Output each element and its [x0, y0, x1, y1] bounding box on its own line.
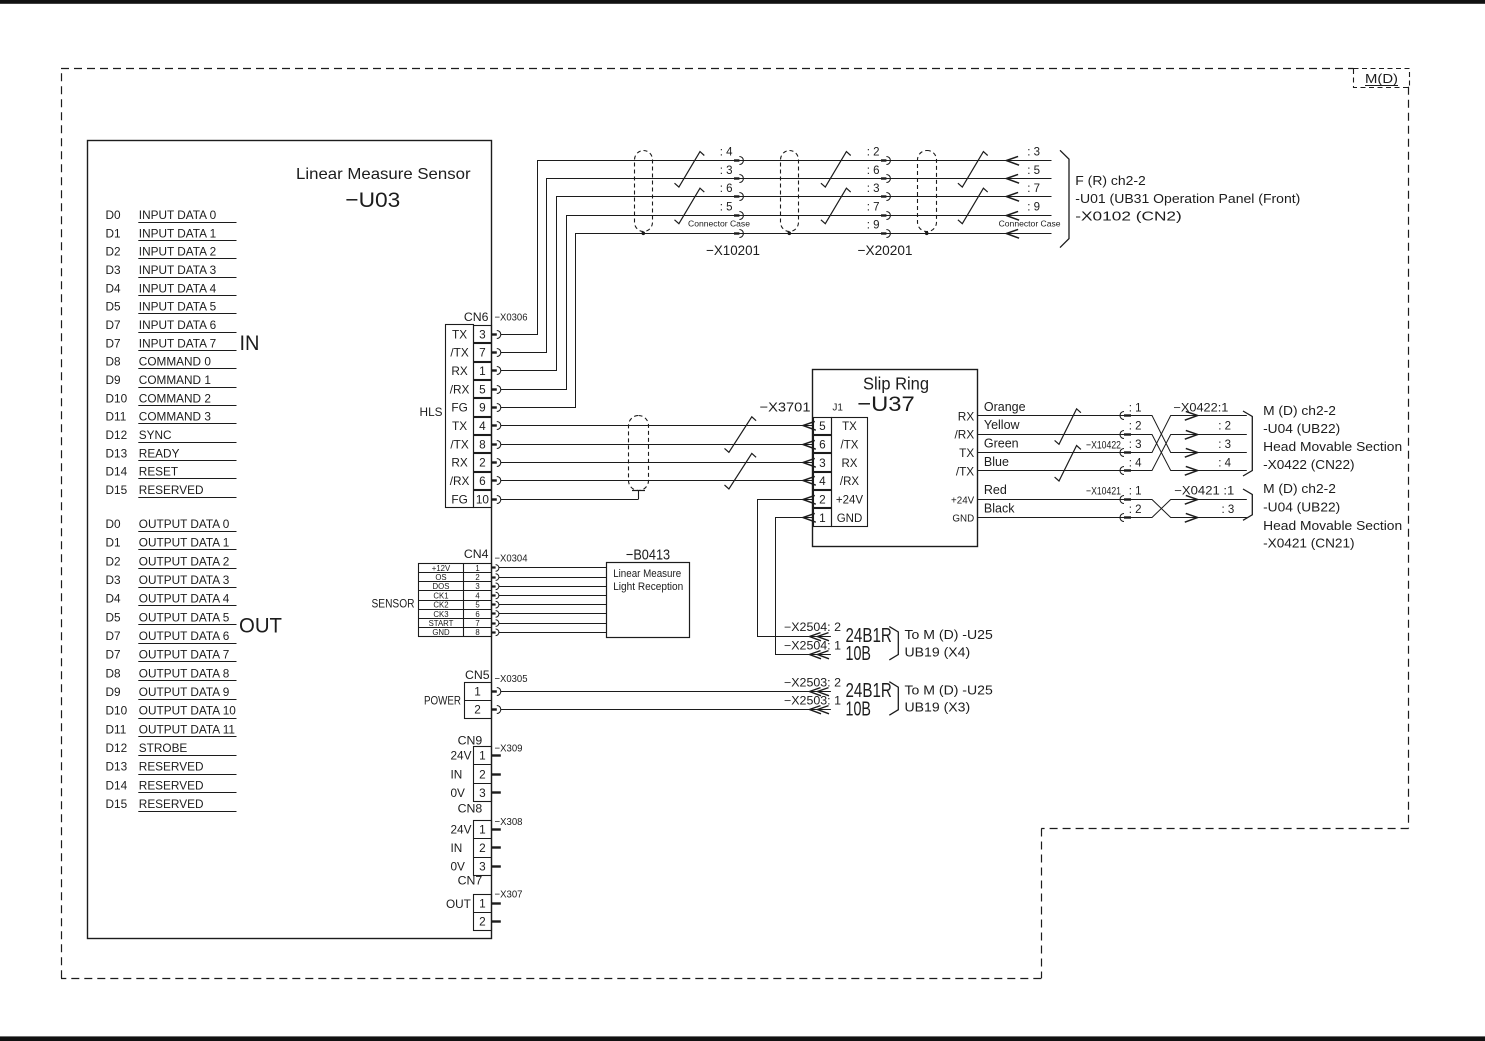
- wire slip ring Yellow: [977, 418, 1124, 434]
- svg-text:D3: D3: [106, 573, 122, 587]
- destination label To M (D) -U25 UB19 (X4): [905, 628, 993, 659]
- svg-text:UB19 (X4): UB19 (X4): [905, 645, 971, 659]
- svg-text:−X10201: −X10201: [706, 242, 760, 258]
- svg-text:D7: D7: [106, 336, 121, 350]
- svg-text:−X309: −X309: [495, 742, 523, 754]
- cable tag -X0304: [495, 553, 528, 565]
- cable label 24B1R 10B X2504: [846, 625, 892, 665]
- svg-text:−X2503: 2: −X2503: 2: [784, 677, 841, 689]
- svg-text:COMMAND 1: COMMAND 1: [139, 373, 211, 387]
- svg-text:SENSOR: SENSOR: [372, 599, 415, 611]
- pin labels at X10201: [720, 147, 733, 214]
- svg-text:5: 5: [819, 419, 826, 433]
- svg-text:OUTPUT DATA 11: OUTPUT DATA 11: [139, 722, 235, 736]
- wire CN6 pin 3 to operation panel :4 row: [501, 161, 1052, 335]
- svg-text:/TX: /TX: [841, 439, 859, 451]
- svg-text:INPUT DATA 0: INPUT DATA 0: [139, 208, 217, 222]
- svg-text:D15: D15: [106, 483, 128, 497]
- svg-text:OUTPUT DATA 2: OUTPUT DATA 2: [139, 554, 229, 568]
- svg-text:D15: D15: [106, 797, 128, 811]
- svg-text:INPUT DATA 3: INPUT DATA 3: [139, 263, 217, 277]
- svg-text:: 4: : 4: [720, 147, 733, 159]
- svg-text:F (R) ch2-2: F (R) ch2-2: [1075, 174, 1146, 188]
- svg-text:RX: RX: [958, 409, 975, 423]
- cable label 24B1R 10B X2503: [846, 680, 892, 720]
- svg-text:-X0421 (CN21): -X0421 (CN21): [1263, 537, 1355, 551]
- destination label To M (D) -U25 UB19 (X3): [905, 683, 993, 714]
- brace to U25 X4: [889, 627, 898, 661]
- block U37 Slip Ring outline: [813, 370, 978, 547]
- svg-text:1: 1: [475, 564, 479, 573]
- svg-text:: 6: : 6: [720, 183, 733, 195]
- svg-text:/TX: /TX: [450, 437, 468, 451]
- svg-text:+24V: +24V: [836, 494, 864, 506]
- svg-text:24V: 24V: [451, 822, 472, 836]
- wire CN5 pin 1 to X2503:2: [501, 691, 831, 693]
- connector X20201 contacts: [881, 157, 890, 238]
- svg-text:: 4: : 4: [1129, 457, 1142, 469]
- svg-text:CN6: CN6: [464, 310, 489, 324]
- svg-text:D10: D10: [106, 391, 128, 405]
- brace to X0422: [1243, 411, 1252, 476]
- svg-text:2: 2: [479, 767, 486, 781]
- svg-text:Black: Black: [984, 502, 1015, 516]
- svg-text:D4: D4: [106, 592, 122, 606]
- top border bar: [0, 0, 1485, 4]
- svg-text:−X0304: −X0304: [495, 553, 528, 565]
- svg-text:COMMAND 3: COMMAND 3: [139, 410, 212, 424]
- svg-text:J1: J1: [832, 403, 843, 414]
- svg-text:+12V: +12V: [432, 564, 451, 573]
- svg-text:0V: 0V: [451, 786, 466, 800]
- connector CN4 of U03: [372, 547, 499, 637]
- wire CN6 pin 2 to slip ring RX: [501, 462, 814, 464]
- wire CN4 pin 4 to B0413: [499, 595, 607, 597]
- svg-text:-X0102 (CN2): -X0102 (CN2): [1075, 209, 1182, 223]
- signal arrows into operation panel: [1006, 156, 1019, 238]
- svg-text:−X0305: −X0305: [495, 673, 528, 685]
- twisted pair mark Orange-Yellow: [1055, 409, 1081, 445]
- label Connector Case right: [999, 218, 1061, 228]
- svg-text:Slip Ring: Slip Ring: [863, 374, 929, 394]
- svg-text:2: 2: [479, 915, 486, 929]
- pin labels at operation panel: [1027, 147, 1040, 214]
- block U03 Linear Measure Sensor outline: [88, 141, 492, 939]
- svg-text:CK3: CK3: [433, 610, 448, 619]
- svg-text:D7: D7: [106, 318, 121, 332]
- svg-text:OUTPUT DATA 0: OUTPUT DATA 0: [139, 517, 230, 531]
- svg-text:D3: D3: [106, 263, 122, 277]
- connector CN6 of U03: [420, 310, 501, 508]
- signal arrows into X0422: [1185, 411, 1198, 475]
- svg-text:: 9: : 9: [1027, 201, 1040, 213]
- wire U37 pin 1 GND to X2504:1: [776, 518, 831, 655]
- signal arrows from UB19 X4: [810, 633, 830, 659]
- cable tag -X308: [495, 816, 523, 828]
- svg-text:3: 3: [819, 456, 826, 470]
- U37 right side pin names: [951, 409, 975, 524]
- svg-text:−U37: −U37: [857, 392, 915, 416]
- svg-text:GND: GND: [837, 513, 863, 525]
- svg-text:-U04 (UB22): -U04 (UB22): [1263, 501, 1340, 515]
- svg-text:4: 4: [475, 591, 480, 600]
- svg-text:OUTPUT DATA 1: OUTPUT DATA 1: [139, 536, 229, 550]
- twisted pair mark rows 7-9: [958, 188, 988, 224]
- svg-text:/RX: /RX: [450, 474, 470, 488]
- svg-text:RX: RX: [451, 364, 468, 378]
- svg-text:3: 3: [479, 860, 486, 874]
- svg-text:INPUT DATA 6: INPUT DATA 6: [139, 318, 217, 332]
- wire CN4 pin 7 to B0413: [499, 623, 607, 625]
- svg-text:6: 6: [475, 610, 479, 619]
- svg-text:OUTPUT DATA 8: OUTPUT DATA 8: [139, 666, 230, 680]
- svg-text:D4: D4: [106, 281, 122, 295]
- svg-text:CK2: CK2: [433, 601, 448, 610]
- svg-text:INPUT DATA 1: INPUT DATA 1: [139, 226, 216, 240]
- bottom border bar: [0, 1036, 1485, 1041]
- svg-text:Green: Green: [984, 437, 1019, 451]
- svg-text:FG: FG: [451, 401, 467, 415]
- svg-text:D9: D9: [106, 685, 121, 699]
- svg-text:2: 2: [474, 703, 481, 717]
- svg-text:8: 8: [479, 437, 486, 451]
- brace to U25 X3: [889, 682, 898, 716]
- wire slip ring Green: [977, 437, 1124, 453]
- svg-text:HLS: HLS: [420, 405, 443, 419]
- svg-text:D5: D5: [106, 300, 122, 314]
- svg-text:−X2504: 1: −X2504: 1: [784, 640, 841, 652]
- svg-text:3: 3: [475, 582, 479, 591]
- svg-text:: 3: : 3: [1222, 504, 1235, 516]
- svg-text:POWER: POWER: [424, 696, 461, 708]
- svg-text:24V: 24V: [451, 749, 472, 763]
- svg-text:TX: TX: [452, 327, 467, 341]
- svg-text:M (D) ch2-2: M (D) ch2-2: [1263, 482, 1336, 496]
- svg-text:7: 7: [479, 346, 486, 360]
- svg-text:1: 1: [819, 511, 826, 525]
- label Linear Measure Sensor: [296, 166, 471, 183]
- svg-text:D14: D14: [106, 465, 128, 479]
- svg-text:D7: D7: [106, 629, 121, 643]
- svg-text:D8: D8: [106, 355, 122, 369]
- svg-text:D12: D12: [106, 741, 128, 755]
- svg-text:TX: TX: [959, 446, 974, 460]
- svg-text:2: 2: [819, 492, 826, 506]
- svg-text:3: 3: [479, 327, 486, 341]
- block B0413 Linear Measure Light Reception: [607, 563, 690, 638]
- wire CN6 pin 7 to operation panel :3 row: [501, 179, 1052, 353]
- wire CN4 pin 5 to B0413: [499, 604, 607, 606]
- pin labels at X20201: [867, 147, 880, 232]
- svg-text:: 9: : 9: [867, 220, 880, 232]
- svg-text:D2: D2: [106, 245, 121, 259]
- svg-text:Connector Case: Connector Case: [688, 218, 750, 228]
- wire CN4 pin 2 to B0413: [499, 577, 607, 579]
- svg-text:D11: D11: [106, 410, 127, 424]
- svg-text:/RX: /RX: [955, 428, 975, 442]
- svg-text:-X0422 (CN22): -X0422 (CN22): [1263, 458, 1355, 472]
- svg-text:1: 1: [474, 685, 481, 699]
- svg-text:Yellow: Yellow: [984, 418, 1021, 432]
- svg-text:−X10421: −X10421: [1086, 485, 1121, 497]
- designator -X20201: [858, 242, 913, 258]
- svg-text:10B: 10B: [846, 643, 871, 665]
- destination label M (D) ch2-2 head movable section CN22: [1263, 404, 1402, 472]
- svg-text:TX: TX: [842, 421, 857, 433]
- svg-text:UB19 (X3): UB19 (X3): [905, 701, 971, 715]
- svg-text:IN: IN: [240, 332, 260, 355]
- wire X10422 pin 3 crossing to X0422 row 1: [1131, 416, 1247, 453]
- wire X10422 pin 2 crossing to X0422 row 4: [1131, 435, 1247, 471]
- designator -U37: [857, 392, 915, 416]
- svg-text:COMMAND 2: COMMAND 2: [139, 391, 211, 405]
- svg-text:: 2: : 2: [1129, 421, 1142, 433]
- wire slip ring Orange: [977, 400, 1124, 416]
- svg-text:−X10422: −X10422: [1086, 439, 1121, 451]
- svg-text:D1: D1: [106, 536, 121, 550]
- svg-text:To M (D) -U25: To M (D) -U25: [905, 683, 993, 697]
- svg-text:3: 3: [479, 786, 486, 800]
- svg-text:FG: FG: [451, 492, 467, 506]
- label Connector Case left: [688, 218, 750, 228]
- svg-text:CK1: CK1: [433, 591, 448, 600]
- svg-text:D12: D12: [106, 428, 128, 442]
- wire CN5 pin 2 to X2503:1: [501, 709, 831, 711]
- svg-text:RX: RX: [451, 456, 468, 470]
- shield symbol on cable X10201 segment: [635, 151, 653, 236]
- pin labels X2503: [784, 677, 841, 707]
- svg-text:: 2: : 2: [1129, 504, 1142, 516]
- connector X10421 contacts: [1120, 496, 1131, 522]
- svg-text:−X0306: −X0306: [495, 312, 528, 324]
- label IN: [240, 332, 260, 355]
- svg-text:READY: READY: [139, 446, 180, 460]
- svg-text:OS: OS: [435, 573, 446, 582]
- connector CN9 of U03: [451, 733, 501, 801]
- svg-text:1: 1: [479, 749, 486, 763]
- svg-text:+24V: +24V: [951, 495, 975, 506]
- svg-text:4: 4: [819, 474, 826, 488]
- designator -B0413: [626, 546, 670, 563]
- svg-text:: 3: : 3: [867, 183, 880, 195]
- svg-text:RX: RX: [842, 458, 858, 470]
- twisted pair mark rows 6-5: [675, 188, 705, 224]
- svg-text:−X307: −X307: [495, 888, 523, 900]
- svg-text:COMMAND 0: COMMAND 0: [139, 355, 212, 369]
- svg-text:0V: 0V: [451, 860, 466, 874]
- svg-text:: 5: : 5: [720, 201, 733, 213]
- svg-text:10: 10: [476, 492, 490, 506]
- wire X10421 pin 2 crossing to X0421 row 1: [1131, 500, 1247, 518]
- svg-text:9: 9: [479, 401, 486, 415]
- twisted pair mark rows 2-6: [821, 152, 851, 188]
- twisted pair mark RX pair X3701: [725, 453, 757, 489]
- wire CN4 pin 8 to B0413: [499, 632, 607, 634]
- label Slip Ring: [863, 374, 929, 394]
- cable tag -X307: [495, 888, 523, 900]
- svg-text:−X20201: −X20201: [858, 242, 913, 258]
- twisted pair mark Green-Blue: [1055, 446, 1081, 482]
- wire X10422 pin 1 crossing to X0422 row 3: [1131, 416, 1247, 453]
- svg-text:/TX: /TX: [956, 464, 974, 478]
- svg-text:INPUT DATA 4: INPUT DATA 4: [139, 281, 217, 295]
- svg-text:: 2: : 2: [1218, 421, 1231, 433]
- input signal list D0-D15: [106, 208, 237, 498]
- svg-text:−X0422:1: −X0422:1: [1173, 402, 1228, 414]
- svg-text:: 3: : 3: [1027, 147, 1040, 159]
- svg-text:D13: D13: [106, 760, 128, 774]
- svg-text:D13: D13: [106, 446, 128, 460]
- svg-text:RESERVED: RESERVED: [139, 760, 204, 774]
- pin labels X2504: [784, 622, 841, 652]
- svg-text:Linear Measure Sensor: Linear Measure Sensor: [296, 166, 471, 183]
- pin labels at X10422: [1129, 402, 1142, 469]
- wire CN4 pin 6 to B0413: [499, 613, 607, 615]
- svg-text:10B: 10B: [846, 698, 871, 720]
- signal arrows into X0421: [1185, 495, 1198, 522]
- svg-text:4: 4: [479, 419, 486, 433]
- svg-text:: 6: : 6: [867, 165, 880, 177]
- cable tag -X0306: [495, 312, 528, 324]
- connector CN8 of U03: [451, 801, 501, 875]
- pin labels at X0421: [1174, 486, 1234, 516]
- svg-text:: 3: : 3: [1218, 439, 1231, 451]
- twisted pair mark TX pair X3701: [725, 417, 757, 453]
- svg-text:5: 5: [475, 601, 480, 610]
- svg-text:D11: D11: [106, 722, 127, 736]
- twisted pair mark rows 3-7: [821, 188, 851, 224]
- svg-text:CN7: CN7: [458, 874, 483, 888]
- wire slip ring Red: [977, 483, 1124, 499]
- pin labels at X10421: [1129, 486, 1142, 516]
- svg-text:RESERVED: RESERVED: [139, 483, 204, 497]
- connector X10201 contacts: [734, 157, 743, 238]
- svg-text:/RX: /RX: [840, 476, 860, 488]
- designator -X10201: [706, 242, 760, 258]
- svg-text:M(D): M(D): [1365, 72, 1398, 86]
- svg-text:5: 5: [479, 382, 486, 396]
- connector CN7 of U03: [446, 874, 501, 931]
- svg-text:: 3: : 3: [720, 165, 733, 177]
- destination label F (R) ch2-2 operation panel: [1075, 174, 1300, 223]
- wire X10421 pin 1 crossing to X0421 row 2: [1131, 500, 1247, 518]
- svg-text:-U04 (UB22): -U04 (UB22): [1263, 422, 1340, 436]
- svg-text:2: 2: [475, 573, 479, 582]
- svg-text:OUTPUT DATA 7: OUTPUT DATA 7: [139, 648, 229, 662]
- svg-text:1: 1: [479, 364, 486, 378]
- svg-text:8: 8: [475, 628, 479, 637]
- svg-text:DOS: DOS: [433, 582, 450, 591]
- cable tag -X309: [495, 742, 523, 754]
- svg-text:OUTPUT DATA 5: OUTPUT DATA 5: [139, 610, 230, 624]
- connector X10422 contacts: [1120, 412, 1131, 475]
- svg-text:OUT: OUT: [239, 615, 282, 638]
- designator -X10422: [1086, 439, 1121, 451]
- svg-text:CN4: CN4: [464, 547, 489, 561]
- wire CN6 pin 6 to slip ring /RX: [501, 480, 814, 482]
- wire CN4 pin 3 to B0413: [499, 586, 607, 588]
- wire CN6 pin 1 to operation panel :6 row: [501, 197, 1052, 371]
- twisted pair mark rows 3-5: [958, 152, 988, 188]
- svg-text:M (D) ch2-2: M (D) ch2-2: [1263, 404, 1336, 418]
- svg-text:CN8: CN8: [458, 801, 483, 815]
- svg-text:To M (D) -U25: To M (D) -U25: [905, 628, 993, 642]
- shield symbol right segment: [918, 151, 937, 236]
- svg-text:−B0413: −B0413: [626, 546, 670, 563]
- wire CN6 pin 5 to operation panel :5 row: [501, 216, 1052, 390]
- svg-text:D14: D14: [106, 778, 128, 792]
- svg-text:Head Movable Section: Head Movable Section: [1263, 519, 1402, 533]
- svg-text:/RX: /RX: [450, 382, 470, 396]
- svg-text:START: START: [429, 619, 454, 628]
- output signal list D0-D15: [106, 517, 237, 812]
- brace to X0421: [1243, 489, 1252, 520]
- svg-text:2: 2: [479, 456, 486, 470]
- svg-text:D0: D0: [106, 517, 122, 531]
- svg-text:1: 1: [479, 897, 486, 911]
- destination label M (D) ch2-2 head movable section CN21: [1263, 482, 1402, 550]
- svg-text:D1: D1: [106, 226, 121, 240]
- signal arrows from UB19 X3: [810, 688, 830, 714]
- svg-text:: 5: : 5: [1027, 165, 1040, 177]
- svg-text:: 7: : 7: [1027, 183, 1040, 195]
- frame tag box M(D): [1354, 69, 1410, 88]
- svg-text:6: 6: [819, 437, 826, 451]
- svg-text:RESERVED: RESERVED: [139, 778, 204, 792]
- svg-text:Head Movable Section: Head Movable Section: [1263, 440, 1402, 454]
- designator -X3701: [760, 400, 811, 415]
- svg-text:RESET: RESET: [139, 465, 178, 479]
- svg-text:−X2503: 1: −X2503: 1: [784, 696, 841, 708]
- svg-text:D10: D10: [106, 704, 128, 718]
- connector J1 of U37: [803, 403, 868, 527]
- svg-text:D7: D7: [106, 648, 121, 662]
- svg-text:OUTPUT DATA 3: OUTPUT DATA 3: [139, 573, 230, 587]
- svg-text:: 2: : 2: [867, 147, 880, 159]
- svg-text:−X0421 :1: −X0421 :1: [1174, 486, 1234, 498]
- svg-text:SYNC: SYNC: [139, 428, 172, 442]
- wire CN6 pin 4 to slip ring TX: [501, 425, 814, 427]
- svg-text:−X2504: 2: −X2504: 2: [784, 622, 841, 634]
- svg-text:D9: D9: [106, 373, 121, 387]
- svg-text:Blue: Blue: [984, 455, 1009, 469]
- wire CN6 pin 9 to operation panel shield row: [501, 234, 1052, 408]
- wire CN6 pin 8 to slip ring /TX: [501, 444, 814, 446]
- wire slip ring Blue: [977, 455, 1124, 471]
- cable tag -X0305: [495, 673, 528, 685]
- svg-text:CN9: CN9: [458, 733, 483, 747]
- connector CN5 of U03: [424, 668, 501, 719]
- shield symbol on cable X3701: [629, 416, 649, 500]
- svg-text:D5: D5: [106, 610, 122, 624]
- svg-text:IN: IN: [451, 767, 463, 781]
- brace to operation panel: [1060, 150, 1069, 247]
- designator -X10421: [1086, 485, 1121, 497]
- wire CN6 pin 10 FG to cable shield: [501, 499, 639, 501]
- wire X10422 pin 4 crossing to X0422 row 2: [1131, 435, 1247, 471]
- svg-text:INPUT DATA 7: INPUT DATA 7: [139, 336, 216, 350]
- svg-text:INPUT DATA 2: INPUT DATA 2: [139, 245, 216, 259]
- svg-text:Red: Red: [984, 483, 1007, 497]
- svg-text:Linear Measure: Linear Measure: [613, 568, 681, 580]
- svg-text:D2: D2: [106, 554, 121, 568]
- svg-text:OUTPUT DATA 9: OUTPUT DATA 9: [139, 685, 229, 699]
- svg-text:−X308: −X308: [495, 816, 523, 828]
- svg-text:OUTPUT DATA 4: OUTPUT DATA 4: [139, 592, 230, 606]
- label OUT: [239, 615, 282, 638]
- svg-text:IN: IN: [451, 841, 463, 855]
- svg-text:CN5: CN5: [465, 668, 490, 682]
